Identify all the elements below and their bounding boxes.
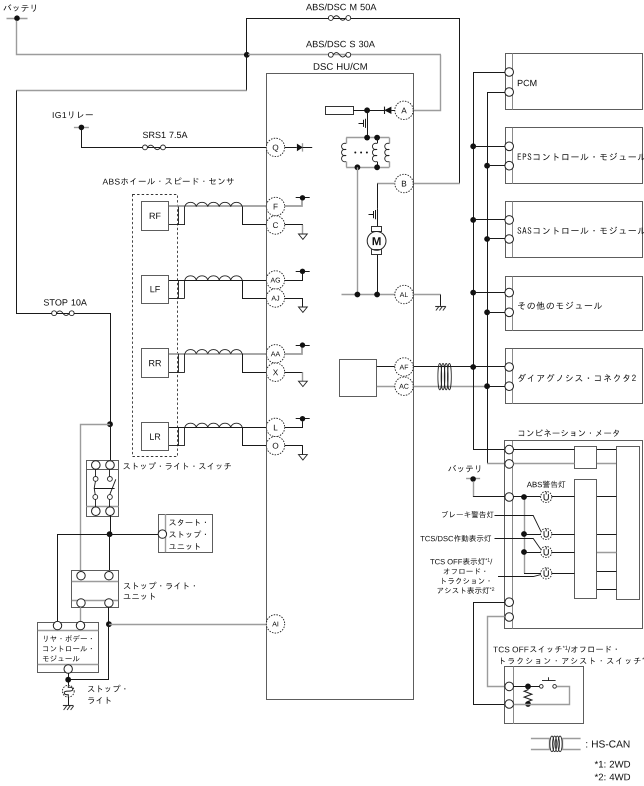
wire lamp out y=573.3 — [552, 573, 575, 575]
pin AA — [266, 345, 284, 363]
junction node (108.9,624.2) — [106, 621, 112, 627]
wire drv-mcu 3 — [597, 552, 616, 554]
PCM label — [518, 80, 537, 86]
wire drv-mcu 4 — [597, 571, 616, 573]
node tbar F — [296, 195, 310, 200]
fuse ABS/DSC M 50A — [328, 16, 350, 21]
wire sensor LF signal — [169, 280, 266, 282]
wire feed3 stub — [524, 552, 541, 554]
sensor RF connector notch — [169, 207, 185, 226]
sensor RR twisted-pair squiggle — [185, 350, 242, 354]
rear body control module label — [43, 635, 92, 661]
other modules box — [506, 277, 643, 331]
junction node (367.1,110.3) — [364, 107, 370, 113]
wheel speed sensor LF box — [142, 276, 169, 304]
legend HS-CAN label — [586, 740, 629, 747]
node bottom rail mid coil — [374, 164, 380, 170]
node bottom rail drop — [355, 164, 361, 170]
switch contacts — [93, 469, 116, 507]
pin C — [266, 216, 284, 234]
fuse label SRS1 7.5A — [143, 132, 188, 138]
wire module to stop light — [68, 673, 70, 685]
meter pin 4 — [505, 598, 514, 607]
solenoid coil right — [385, 138, 390, 168]
pin A — [395, 101, 413, 119]
pin Q — [266, 138, 284, 156]
node feed1 — [521, 494, 527, 500]
switch pin bottom-right — [106, 507, 115, 516]
ellipsis dots — [354, 152, 368, 154]
start stop unit pin — [158, 530, 166, 538]
node bus2 junction y=386.2 — [484, 383, 490, 389]
wire lamp feed — [514, 497, 541, 574]
EPS control module pin 1 — [505, 142, 514, 151]
pin AJ — [266, 289, 284, 307]
wire motor to AL rail — [377, 255, 379, 295]
node bus1 junction y=146.3 — [470, 143, 476, 149]
battery power tap — [7, 15, 28, 21]
PCM box — [506, 54, 643, 110]
wheel speed sensor LR box — [142, 423, 169, 451]
fuse SRS1 7.5A — [143, 145, 166, 150]
wire meter canh — [514, 449, 617, 451]
wire switch to junction2 — [110, 516, 112, 535]
wire tcs right loop — [514, 687, 570, 705]
transistor Q2 (mosfet) — [369, 210, 376, 219]
module pin top-right — [76, 621, 84, 629]
switch pin top-right — [106, 461, 115, 470]
stop light switch label — [123, 462, 231, 470]
wire motor branch upper — [377, 184, 379, 209]
wire lamp out y=497 — [552, 496, 575, 498]
wire STOP 10A run — [16, 314, 111, 425]
module pin bottom — [64, 665, 72, 673]
wire sensor RR return — [243, 354, 267, 373]
wire drv-mcu 1 — [597, 496, 616, 498]
DSC HU/CM box — [267, 74, 414, 700]
lamp ABS warning — [541, 491, 552, 502]
meter pin 3 — [505, 493, 514, 502]
meter pin 5 — [505, 613, 514, 622]
wheel speed sensor RF box — [142, 202, 169, 231]
junction node (110,424.2) — [107, 421, 113, 427]
ground (sensor LF) — [299, 307, 308, 312]
twisted pair symbol (DSC to bus) — [438, 363, 451, 389]
wire battery down+right to junction — [17, 21, 245, 55]
lamp stop light — [62, 685, 74, 697]
diagnosis connector 2 label — [518, 374, 636, 382]
node AL rail right — [374, 292, 380, 298]
IG1 relay label — [53, 111, 93, 118]
wire solenoid top rail — [346, 137, 389, 139]
wire tcs upper — [514, 686, 540, 688]
motor M brush top — [372, 227, 382, 232]
lamp TCS OFF indicator — [541, 568, 552, 579]
wire feed4 stub — [524, 573, 541, 575]
rear body control module box — [38, 623, 99, 673]
motor M brush bottom — [372, 250, 382, 255]
leader brake — [495, 516, 541, 532]
wire pin X stub — [285, 372, 303, 381]
wire junction up to 50A fuse line — [246, 18, 248, 55]
wire bus1 stub y=146.3 — [473, 146, 505, 148]
TCS OFF switch box — [505, 666, 584, 724]
unit pin top-right — [105, 572, 113, 580]
unit pin top-left — [77, 572, 85, 580]
wire solenoid bottom rail — [346, 167, 389, 169]
diagnosis connector 2 pin 2 — [505, 382, 514, 391]
ABS warning lamp label — [527, 481, 566, 488]
wire 50A down to pin B — [459, 18, 461, 184]
combination meter box — [505, 441, 643, 629]
junction node (109.6,534.2) — [107, 531, 113, 537]
battery 2 tap — [466, 476, 480, 482]
battery バッテリ label — [4, 4, 36, 12]
wheel speed sensor RR box — [142, 349, 169, 378]
sensor RF twisted-pair squiggle — [185, 202, 242, 206]
wire CAN bus1 — [474, 73, 506, 450]
wire AL rail — [342, 294, 395, 296]
pin AL — [395, 285, 413, 303]
start stop unit label — [169, 519, 206, 550]
wire sensor LF return — [243, 280, 267, 299]
ground (stop light) — [63, 706, 74, 711]
wire pin AJ stub — [285, 298, 303, 307]
sensor LF connector notch — [169, 280, 185, 299]
EPS control module box — [506, 128, 643, 184]
CAN transceiver U1 — [340, 360, 377, 397]
SAS control module pin 2 — [505, 235, 514, 244]
node tbar AA — [296, 342, 310, 347]
pin AG — [266, 271, 284, 289]
stop light label — [88, 685, 126, 704]
PCM pin 2 — [505, 88, 514, 97]
wire sensor RF return — [243, 207, 267, 225]
module pin top-left — [53, 621, 61, 629]
unit pin bottom-left — [77, 599, 85, 607]
sensor LR connector notch — [169, 427, 185, 445]
ground (sensor LR) — [299, 455, 308, 460]
wire CAN-H from AF — [414, 366, 506, 368]
wire junction2 down to unit — [109, 534, 111, 571]
motor M — [367, 232, 386, 251]
fuse label STOP 10A — [44, 299, 87, 305]
wire CAN bus2 — [487, 93, 505, 464]
wire stop-light-switch bypass — [81, 425, 111, 572]
wire solenoid return drop — [357, 167, 359, 294]
diagnosis connector 2 pin 1 — [505, 363, 514, 372]
wire U1 to AF — [377, 366, 395, 368]
SAS control module label — [518, 227, 644, 235]
wire to pin AI — [109, 624, 266, 626]
fuse label ABS/DSC M 50A — [306, 4, 377, 11]
wire bus2 stub y=239.0 — [487, 238, 505, 240]
stop light unit label — [124, 582, 195, 600]
wire pin L stub — [285, 421, 303, 427]
wire feed2 stub — [524, 534, 541, 536]
wire junction2 left to module — [58, 535, 110, 622]
diode D1 — [297, 144, 303, 152]
node top rail mid coil — [374, 135, 380, 141]
EPS control module label — [518, 153, 644, 161]
pin L — [266, 418, 284, 436]
lamp brake warning — [541, 528, 552, 539]
momentary switch SW1 — [540, 677, 557, 688]
wire ABS/DSC S 30A run — [248, 54, 441, 56]
stop light unit box — [72, 571, 119, 608]
fuse ABS/DSC S 30A — [328, 52, 350, 57]
pin B — [395, 174, 413, 192]
pin X — [266, 363, 284, 381]
meter CAN rect — [575, 447, 597, 469]
unit pin bottom-right — [105, 599, 113, 607]
pin AF — [395, 358, 413, 376]
wire 30A down to pin A — [414, 55, 441, 111]
sensor group label ABSホイール・スピード・センサ — [103, 178, 234, 185]
wire bus1 stub y=292.6 — [473, 292, 505, 294]
node bus1 junction y=292.6 — [470, 290, 476, 296]
sensor group dashed box — [133, 195, 178, 457]
wire down right of module — [68, 624, 108, 679]
node feed2 — [521, 531, 527, 537]
wire junction2 to start-stop unit — [110, 534, 159, 536]
wire lamp to ground — [68, 697, 70, 705]
solenoid coil left — [342, 138, 347, 168]
lamp TCS/DSC indicator — [541, 546, 552, 557]
junction node (68.2,679.7) — [65, 677, 71, 683]
wire meter pin5 to switch — [488, 617, 505, 687]
note *1 2WD — [595, 761, 630, 768]
node feed3 — [521, 549, 527, 555]
PCM pin 1 — [505, 68, 514, 77]
node tcs upper — [525, 684, 531, 690]
meter pin 1 — [505, 445, 514, 454]
wire mosfet Q1 drain — [367, 110, 369, 137]
node bus1 junction y=219.9 — [470, 217, 476, 223]
leader tcsdsc — [495, 539, 541, 550]
node bus2 junction y=165.7 — [484, 163, 490, 169]
wire bus2 stub y=165.7 — [487, 165, 505, 167]
wire pin AG stub — [285, 274, 303, 281]
node bus2 junction y=239.0 — [484, 236, 490, 242]
node bus1 junction y=367.0 — [470, 364, 476, 370]
meter pin 2 — [505, 460, 514, 469]
TCS switch pin 2 — [505, 700, 514, 709]
wire drv-mcu 2 — [597, 534, 616, 536]
leader tcsoff — [498, 575, 541, 577]
battery 2 label — [448, 465, 480, 473]
sensor LR twisted-pair squiggle — [185, 423, 242, 427]
resistor R2 — [524, 686, 532, 704]
ground (sensor RR) — [299, 381, 308, 386]
diode D2 — [384, 107, 395, 114]
switch pin top-left — [92, 461, 101, 470]
wire junction down-left loop — [16, 55, 247, 313]
wire lamp out y=534 — [552, 534, 575, 536]
SAS control module pin 1 — [505, 216, 514, 225]
wire pin B to motor branch — [377, 183, 395, 185]
wire into pin B — [414, 183, 460, 185]
pin AC — [395, 377, 413, 395]
wire meter canl — [514, 463, 617, 465]
note *2 4WD — [595, 774, 630, 781]
sensor RR connector notch — [169, 354, 185, 373]
wire lamp out y=552 — [552, 552, 575, 554]
TCS switch pin 1 — [505, 682, 514, 691]
SAS control module box — [506, 202, 643, 258]
node bus2 junction y=312.3 — [484, 309, 490, 315]
wire pin F stub — [285, 200, 302, 206]
wire unit left to rear module — [80, 607, 82, 621]
wire AL to ground — [414, 295, 441, 306]
IG1 relay tap — [74, 125, 89, 131]
pin O — [266, 436, 284, 454]
wire junction to switch — [110, 424, 112, 461]
wire ABS/DSC M 50A run — [247, 18, 460, 20]
legend twisted pair symbol — [531, 736, 581, 752]
node top rail feed — [364, 135, 370, 141]
EPS control module pin 2 — [505, 161, 514, 170]
wire pin Q stub — [285, 143, 313, 151]
wire IG1 to SRS1 fuse to pin Q — [82, 130, 267, 148]
node tbar AG — [296, 269, 310, 274]
resistor R1 — [326, 107, 354, 115]
node tcs lower — [525, 701, 531, 707]
other modules pin 1 — [505, 288, 514, 297]
DSC HU/CM label — [314, 63, 367, 70]
wire sensor RF signal — [169, 205, 266, 207]
stop light switch box — [86, 461, 118, 517]
wire sensor LR return — [243, 427, 267, 445]
diagnosis connector 2 box — [506, 349, 643, 404]
other modules label — [518, 302, 602, 310]
start stop unit box — [159, 514, 213, 552]
wire U1 to AC — [377, 386, 395, 388]
meter driver rect — [575, 480, 597, 599]
wire battery2 to meter — [473, 481, 505, 497]
switch pin bottom-left — [92, 507, 101, 516]
brake warning label — [442, 511, 494, 518]
ground (pin AL) — [435, 306, 446, 310]
junction node (246.8,54.8) — [244, 52, 250, 58]
wire Q2 to motor — [377, 209, 379, 227]
node tbar L — [296, 416, 310, 421]
fuse STOP 10A — [52, 311, 74, 316]
solenoid coil mid — [372, 138, 377, 168]
ground (sensor RF) — [299, 234, 308, 239]
wire pin AA stub — [285, 348, 302, 354]
TCS OFF indicator label — [430, 558, 494, 594]
wire pin O stub — [285, 446, 303, 455]
TCS/DSC indicator label — [420, 535, 491, 542]
pin AI — [266, 615, 284, 633]
wire pin C stub — [285, 225, 303, 234]
TCS OFF switch label — [493, 646, 644, 665]
wire unit right down — [108, 607, 110, 624]
wire drv-mcu 5 — [597, 589, 616, 591]
sensor LF twisted-pair squiggle — [185, 276, 242, 280]
transistor Q1 (mosfet) — [359, 119, 366, 128]
wire CAN-L from AC — [414, 386, 506, 388]
wire meter pin4 to switch — [474, 603, 505, 705]
node AL rail left — [355, 292, 361, 298]
fuse label ABS/DSC S 30A — [306, 41, 375, 48]
wire bus1 stub y=219.9 — [473, 219, 505, 221]
wire sensor RR signal — [169, 353, 266, 355]
wire R1 to diode — [353, 110, 384, 112]
combination meter label — [519, 429, 619, 436]
meter MCU rect — [617, 447, 640, 600]
pin F — [266, 197, 284, 215]
other modules pin 2 — [505, 308, 514, 317]
wire bus2 stub y=312.3 — [487, 312, 505, 314]
wire sensor LR signal — [169, 427, 266, 429]
